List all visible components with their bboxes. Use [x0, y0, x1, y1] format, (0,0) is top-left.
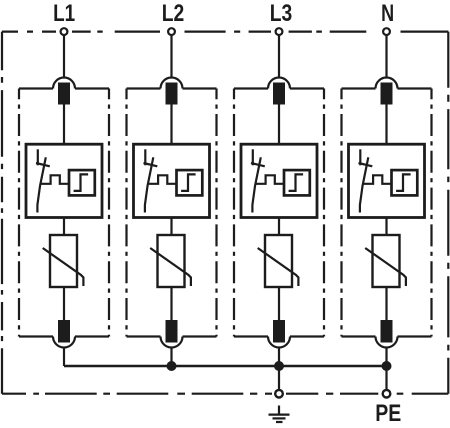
- wire varistor RV4 to bottom contact: [385, 287, 387, 321]
- module box top edge (channel N): [342, 87, 432, 89]
- wire L2 terminal to module: [170, 36, 172, 79]
- module box top edge (channel L2): [127, 87, 217, 89]
- outer enclosure border (bottom, dash-dot): [2, 393, 448, 395]
- varistor RV3 body: [265, 235, 292, 287]
- wire channel L2 to PE bus: [170, 348, 172, 367]
- svg-text:L3: L3: [270, 0, 293, 27]
- plug-in contact arc top (channel L1): [53, 78, 75, 89]
- terminal N (input clamp): [383, 28, 390, 35]
- plug-in contact arc bottom (channel L3): [268, 337, 290, 348]
- disconnector U4 fixed contact stub: [359, 149, 361, 165]
- disconnector U2 fixed contact stub: [144, 149, 146, 165]
- disconnector U3 contact tick: [251, 163, 265, 166]
- terminal mask L2: [164, 30, 180, 34]
- wire contact to disconnector U2: [170, 105, 172, 146]
- plug-in contact arc bottom (channel N): [376, 337, 398, 348]
- wire disconnector U4 to varistor RV4: [385, 218, 387, 236]
- ground symbol stem: [278, 406, 280, 415]
- wire L3 terminal to module: [278, 36, 280, 79]
- junction dot L3/bus: [274, 361, 284, 371]
- varistor RV4 diagonal stroke: [365, 248, 406, 286]
- module box bottom edge (channel L2): [127, 335, 217, 337]
- module box left side (dash-dot, channel N): [340, 89, 342, 337]
- module box bottom edge (channel L3): [234, 335, 324, 337]
- wire N terminal to module: [385, 36, 387, 79]
- disconnector U1 control box: [69, 170, 95, 195]
- terminal mask L3: [271, 30, 287, 34]
- module box bottom edge (channel N): [342, 335, 432, 337]
- module box top edge (channel L1): [19, 87, 109, 89]
- fuse contact top (channel L3): [273, 83, 285, 105]
- disconnector U2 contact tick: [144, 163, 158, 166]
- wire contact to disconnector U4: [385, 105, 387, 146]
- terminal L3 (input clamp): [276, 28, 283, 35]
- terminal L1 (input clamp): [61, 28, 68, 35]
- disconnector U2 switch blade: [145, 157, 153, 212]
- module box right side (dash-dot, channel N): [430, 89, 432, 337]
- disconnector U3 switch blade: [252, 157, 260, 212]
- terminal PE (output clamp): [383, 390, 391, 398]
- plug-in contact arc top (channel N): [376, 78, 398, 89]
- ground symbol bar 2: [273, 417, 286, 419]
- wire channel L1 to PE bus: [63, 348, 65, 367]
- terminal L2 (input clamp): [168, 28, 175, 35]
- terminal mask N: [379, 30, 395, 34]
- disconnector U4 contact tick: [359, 163, 373, 166]
- module box top edge (channel L3): [234, 87, 324, 89]
- junction dot N/bus: [382, 361, 392, 371]
- module box left side (dash-dot, channel L1): [18, 89, 20, 337]
- svg-text:PE: PE: [375, 400, 401, 427]
- wire bus to earth terminal: [278, 366, 280, 391]
- varistor RV2 diagonal stroke: [150, 248, 191, 286]
- outer enclosure border (right, dash-dot): [447, 32, 449, 394]
- fuse contact top (channel L1): [58, 83, 70, 105]
- plug-in contact arc top (channel L2): [161, 78, 183, 89]
- disconnector U1 contact tick: [36, 163, 50, 166]
- wire varistor RV3 to bottom contact: [278, 287, 280, 321]
- fuse contact bottom (channel L3): [273, 320, 285, 343]
- svg-text:L1: L1: [53, 0, 75, 27]
- varistor RV3 diagonal stroke: [258, 248, 299, 286]
- disconnector U1 control step glyph: [74, 174, 89, 191]
- fuse contact top (channel N): [381, 83, 393, 105]
- disconnector U4 switch blade: [360, 157, 368, 212]
- plug-in contact arc top (channel L3): [268, 78, 290, 89]
- PE bus wire: [64, 365, 387, 368]
- fuse contact bottom (channel L2): [166, 320, 178, 343]
- plug-in contact arc bottom (channel L2): [161, 337, 183, 348]
- disconnector U1 fixed contact stub: [37, 149, 39, 165]
- fuse contact bottom (channel L1): [58, 320, 70, 343]
- disconnector U4 control step glyph: [396, 174, 411, 191]
- module box bottom edge (channel L1): [19, 335, 109, 337]
- disconnector U1 trip pulse line: [40, 175, 69, 184]
- wire contact to disconnector U1: [63, 105, 65, 146]
- module box right side (dash-dot, channel L2): [215, 89, 217, 337]
- varistor RV2 body: [158, 235, 185, 287]
- svg-text:L2: L2: [162, 0, 185, 27]
- terminal earth (output clamp): [275, 390, 283, 398]
- wire varistor RV1 to bottom contact: [63, 287, 65, 321]
- wire disconnector U1 to varistor RV1: [63, 218, 65, 236]
- ground symbol bar 3: [276, 421, 283, 423]
- disconnector U4 control box: [392, 170, 418, 195]
- disconnector U2 control box: [177, 170, 203, 195]
- terminal mask earth: [272, 392, 286, 396]
- wire channel L3 to PE bus: [278, 348, 280, 367]
- disconnector U3 control step glyph: [289, 174, 304, 191]
- wire disconnector U2 to varistor RV2: [170, 218, 172, 236]
- wire channel N to PE bus: [385, 348, 387, 367]
- fuse contact top (channel L2): [166, 83, 178, 105]
- thermal disconnector U2 box: [134, 144, 210, 217]
- module box right side (dash-dot, channel L3): [323, 89, 325, 337]
- wire disconnector U3 to varistor RV3: [278, 218, 280, 236]
- wire bus to PE terminal: [385, 366, 387, 391]
- outer enclosure border (top, dash-dot): [2, 31, 448, 33]
- disconnector U4 trip pulse line: [363, 175, 392, 184]
- wire L1 terminal to module: [63, 36, 65, 79]
- terminal mask PE: [380, 392, 394, 396]
- disconnector U3 fixed contact stub: [252, 149, 254, 165]
- plug-in contact arc bottom (channel L1): [53, 337, 75, 348]
- disconnector U2 trip pulse line: [148, 175, 177, 184]
- thermal disconnector U4 box: [349, 144, 425, 217]
- module box left side (dash-dot, channel L2): [125, 89, 127, 337]
- module box right side (dash-dot, channel L1): [108, 89, 110, 337]
- wire contact to disconnector U3: [278, 105, 280, 146]
- outer enclosure border (left, dash-dot): [1, 32, 3, 394]
- fuse contact bottom (channel N): [381, 320, 393, 343]
- varistor RV4 body: [373, 235, 400, 287]
- thermal disconnector U1 box: [26, 144, 102, 217]
- svg-text:N: N: [381, 0, 394, 27]
- varistor RV1 body: [50, 235, 77, 287]
- wire varistor RV2 to bottom contact: [170, 287, 172, 321]
- disconnector U3 trip pulse line: [255, 175, 284, 184]
- terminal mask L1: [56, 30, 72, 34]
- module box left side (dash-dot, channel L3): [233, 89, 235, 337]
- thermal disconnector U3 box: [241, 144, 317, 217]
- disconnector U3 control box: [284, 170, 310, 195]
- disconnector U1 switch blade: [37, 157, 45, 212]
- ground symbol bar 1: [269, 414, 290, 416]
- disconnector U2 control step glyph: [181, 174, 196, 191]
- junction dot L2/bus: [167, 361, 177, 371]
- varistor RV1 diagonal stroke: [43, 248, 84, 286]
